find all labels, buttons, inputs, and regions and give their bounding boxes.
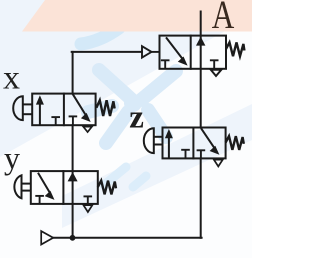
- svg-text:x: x: [3, 60, 20, 97]
- wire: vertical x=200.7 from A label through valve A to valve z top: [200, 12, 202, 128]
- svg-text:y: y: [4, 140, 20, 176]
- valve z exhaust triangle: [214, 160, 223, 167]
- wire: bottom supply rail: [53, 237, 201, 239]
- watermark streaks lower: [104, 167, 146, 187]
- valve x exhaust triangle: [83, 127, 92, 132]
- wire: vertical x=72.6 from pilot corner to valve x top port: [72, 52, 74, 94]
- svg-text:z: z: [129, 100, 144, 136]
- valve z outer box: [163, 128, 226, 159]
- valve A outer box: [160, 36, 227, 69]
- valve y left box blocked port T: [35, 196, 44, 204]
- svg-text:A: A: [212, 0, 235, 37]
- valve y right box flow arrow (up): [68, 172, 78, 181]
- pink band top: [22, 0, 252, 32]
- valve y left box flow path (diagonal arrow): [38, 173, 55, 200]
- valve z spring: [226, 136, 244, 150]
- valve y spring: [98, 181, 116, 195]
- valve x left box flow arrow (up): [36, 95, 44, 125]
- valve y right box blocked port T: [84, 196, 93, 204]
- watermark asterisk center: [88, 70, 176, 143]
- watermark check curve top: [81, 28, 119, 44]
- valve A right box blocked port T: [210, 60, 219, 69]
- valve y divider: [62, 171, 64, 204]
- valve x left box blocked port T: [51, 117, 60, 125]
- valve y button actuator: [14, 175, 30, 198]
- valve y exhaust triangle: [84, 205, 93, 212]
- valve y outer box: [31, 171, 98, 204]
- valve A exhaust triangle: [211, 70, 222, 76]
- valve A left box flow path (diagonal arrow): [166, 37, 188, 65]
- background tint upper area: [0, 0, 252, 157]
- valve x spring: [96, 100, 114, 116]
- valve A right box flow arrow (up): [196, 37, 205, 46]
- wire: vertical x=72.6 from valve x bottom through valve y to junction: [72, 125, 74, 238]
- supply source triangle: [41, 231, 53, 244]
- valve A divider: [190, 36, 192, 69]
- valve x right box blocked port T: [69, 116, 78, 125]
- valve A spring: [226, 42, 244, 56]
- valve z right box flow path (diagonal arrow to exhaust): [201, 128, 219, 155]
- wire: pilot line from node to valve A pilot: [72, 51, 142, 53]
- pilot triangle of valve A: [142, 46, 160, 57]
- valve z right box blocked port T: [197, 150, 206, 158]
- junction node: [70, 235, 76, 241]
- valve z left box flow arrow (up): [165, 129, 173, 158]
- wire: vertical x=200.7 from valve z bottom to bottom rail corner: [200, 158, 202, 237]
- valve x button actuator: [13, 96, 32, 120]
- valve z divider: [192, 128, 194, 159]
- valve z left box blocked port T: [181, 150, 190, 159]
- valve x outer box: [32, 94, 95, 126]
- valve z button actuator: [144, 128, 163, 153]
- valve x divider: [63, 94, 65, 126]
- valve A left box blocked port T: [161, 60, 170, 69]
- background tint band lower middle: [62, 104, 252, 228]
- valve x right box flow path (diagonal arrow to exhaust): [73, 94, 91, 122]
